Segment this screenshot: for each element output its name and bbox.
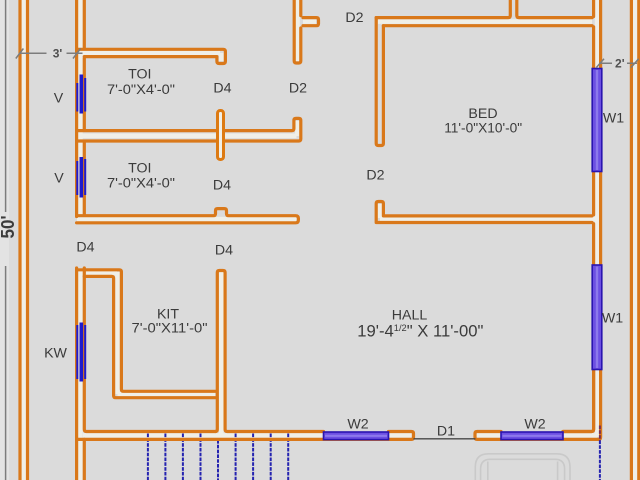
svg-text:D2: D2: [345, 10, 363, 26]
svg-text:D1: D1: [437, 424, 455, 440]
ventilator V lower (blue lines): [77, 157, 85, 198]
svg-text:W2: W2: [347, 417, 368, 433]
divider above BED right line: [517, 0, 592, 18]
svg-text:D2: D2: [366, 168, 384, 184]
inner right wall right line with corner into hall bottom wall: [475, 0, 601, 439]
BED top wall stub at D2: [303, 18, 319, 26]
BED top wall left part joining divider: [376, 0, 510, 18]
svg-text:50': 50': [0, 216, 18, 239]
svg-text:TOI: TOI: [128, 67, 151, 83]
svg-text:D4: D4: [215, 242, 233, 258]
TOI middle wall left part: [77, 131, 217, 141]
stair dashed lines: [148, 434, 288, 480]
svg-text:7'-0"X4'-0": 7'-0"X4'-0": [107, 82, 175, 98]
KIT top wall + middle wall outer line: [77, 270, 216, 392]
window W2 left (hall bottom): [324, 432, 389, 440]
svg-text:D4: D4: [213, 178, 231, 194]
svg-text:2': 2': [615, 57, 625, 71]
svg-text:3': 3': [53, 46, 63, 60]
window W1 lower (hall): [592, 265, 602, 370]
wall stub above D2 (vertical, top area): [294, 0, 301, 63]
car outline in garage: [475, 454, 570, 480]
window W2 right (hall bottom): [501, 432, 563, 440]
hall bottom wall top line right of window2: [563, 370, 594, 432]
svg-text:7'-0"X4'-0": 7'-0"X4'-0": [107, 175, 175, 191]
dashed line at hall right corner (over wall = maroon blend): [599, 426, 601, 441]
svg-text:11'-0"X10'-0": 11'-0"X10'-0": [444, 120, 522, 136]
BED left wall with bottom cap: [376, 18, 383, 146]
svg-text:TOI: TOI: [128, 161, 151, 177]
TOI left wall: [77, 0, 85, 217]
svg-text:D2: D2: [289, 81, 307, 97]
svg-text:7'-0"X11'-0": 7'-0"X11'-0": [132, 320, 208, 336]
ventilator V upper (blue lines): [77, 75, 85, 114]
KIT right wall with top cap joining hall bottom wall: [215, 271, 323, 432]
D1 threshold line: [414, 438, 476, 440]
door D4 jamb stub crossing middle wall: [218, 111, 224, 160]
left outer wall: [20, 0, 28, 480]
inner right wall (bed/hall) left line segments: [563, 0, 594, 432]
svg-text:W1: W1: [602, 311, 623, 327]
TOI middle wall right part with end hook: [225, 118, 301, 141]
svg-text:V: V: [54, 171, 64, 187]
TOI bottom wall with bump and right cap: [77, 209, 299, 223]
svg-text:D4: D4: [76, 239, 94, 255]
stair tread lines: [148, 434, 288, 480]
BED top wall bottom line: [383, 24, 592, 27]
2' dimension (top right): [596, 57, 638, 71]
outer right wall: [631, 0, 638, 480]
svg-text:19'-41/2" X 11'-00": 19'-41/2" X 11'-00": [357, 321, 483, 340]
svg-text:W1: W1: [603, 111, 624, 127]
KIT left wall: [77, 268, 216, 480]
svg-text:W2: W2: [524, 417, 545, 433]
TOI top wall with D4 jamb: [77, 49, 226, 63]
kitchen window KW (blue lines): [77, 323, 85, 382]
stair tread line (at kit wall): [217, 440, 219, 480]
3' dimension (top left): [16, 46, 83, 60]
svg-text:D4: D4: [213, 81, 231, 97]
KIT top wall + middle wall inner line: [84, 276, 215, 397]
left edge light strip: [0, 0, 9, 480]
hall bottom wall, D1 left cap: [77, 432, 414, 440]
window W1 upper (bed): [592, 69, 602, 172]
BED bottom wall with left return: [376, 202, 592, 223]
svg-text:KW: KW: [44, 346, 67, 362]
svg-text:V: V: [54, 91, 64, 107]
50' dimension line (left): [5, 0, 7, 480]
